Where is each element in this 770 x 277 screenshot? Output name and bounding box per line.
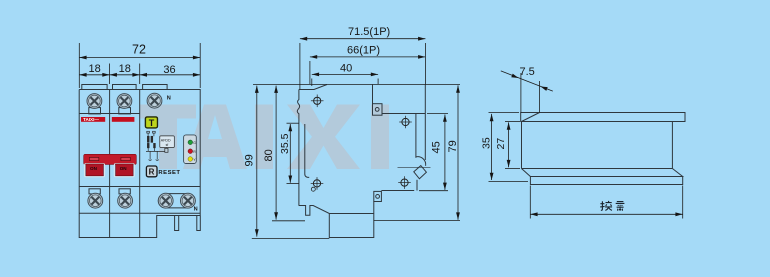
- 7.5 slanted: [501, 71, 553, 91]
- svg-text:36: 36: [163, 64, 175, 76]
- din slot floor: [415, 114, 417, 158]
- anxu glyphs (按需) drawn as strokes: [600, 201, 624, 211]
- red label strips: [81, 117, 134, 122]
- svg-text:AFDD: AFDD: [161, 139, 171, 143]
- svg-text:N: N: [167, 95, 171, 101]
- top-left local top and slope: [299, 85, 327, 90]
- horizontal internal lines: [79, 113, 140, 115]
- top mounting tabs: [82, 85, 107, 90]
- LED indicator panel: [184, 135, 197, 164]
- 7.5 arrows on slant: [511, 74, 518, 78]
- svg-text:ON: ON: [90, 166, 98, 171]
- horizontal top dims: [299, 43, 301, 89]
- svg-text:18: 18: [119, 63, 131, 75]
- svg-text:7.5: 7.5: [520, 66, 535, 78]
- handle window inner line: [305, 124, 309, 177]
- svg-text:T: T: [149, 118, 155, 128]
- svg-text:18: 18: [89, 63, 101, 75]
- svg-text:80: 80: [263, 149, 275, 161]
- clip arc: [416, 157, 426, 166]
- bottom band: [530, 177, 682, 185]
- 27: [505, 121, 520, 123]
- terminal screws top: [87, 94, 102, 109]
- chamfer band: [522, 168, 673, 170]
- svg-text:40: 40: [340, 63, 352, 75]
- top slab: [521, 113, 685, 122]
- mini AFDD diagram: [146, 131, 174, 160]
- anxu: [529, 186, 531, 219]
- svg-text:79: 79: [447, 140, 459, 152]
- bottom left profile: foot tab, slope, arc box: [299, 206, 374, 238]
- svg-text:ON: ON: [120, 166, 128, 171]
- latch stem to bottom line: [416, 180, 418, 191]
- svg-text:45: 45: [431, 141, 443, 153]
- toggle levers: [85, 164, 135, 177]
- vertical dims 99 and 80: [256, 86, 258, 237]
- svg-text:TAIXI—: TAIXI—: [83, 117, 99, 122]
- 35: [489, 112, 520, 114]
- terminal screws bottom: [88, 193, 103, 208]
- svg-text:RESET: RESET: [158, 170, 180, 176]
- neutral stadium outline: [158, 194, 195, 208]
- shared top extension line: [253, 84, 327, 86]
- svg-text:99: 99: [244, 154, 256, 166]
- rear top drop and clamp box: [372, 85, 374, 104]
- svg-text:71.5(1P): 71.5(1P): [348, 26, 390, 38]
- web: [521, 122, 523, 169]
- 需: [616, 202, 625, 211]
- body outline: [79, 90, 200, 238]
- channel floor: [382, 113, 425, 115]
- svg-text:G: G: [193, 141, 196, 145]
- R reset button: [146, 166, 157, 177]
- svg-text:35.5: 35.5: [279, 133, 291, 154]
- svg-text:72: 72: [132, 43, 146, 57]
- svg-text:35: 35: [481, 137, 493, 149]
- 79: [457, 85, 459, 219]
- svg-text:66(1P): 66(1P): [347, 45, 380, 57]
- screw bases top: [89, 108, 101, 114]
- svg-text:sf: sf: [166, 143, 169, 147]
- 按: [600, 201, 604, 210]
- chamfer line: [522, 113, 540, 122]
- svg-text:N: N: [194, 206, 198, 212]
- screw bases bottom: [89, 189, 100, 194]
- front face with wiggle: [297, 90, 299, 206]
- bottom rear lines: [381, 190, 414, 192]
- rear face upper: [424, 85, 426, 161]
- toggle rocker bar: [84, 154, 137, 164]
- 35.5: [287, 122, 299, 124]
- module separators: [109, 90, 111, 238]
- bottom legs: [175, 216, 179, 231]
- svg-text:R: R: [149, 168, 155, 177]
- T test button: [145, 117, 157, 128]
- watermark TAIXI: [140, 105, 389, 170]
- 45: [427, 113, 448, 115]
- clip latch (tilted square): [414, 166, 427, 179]
- svg-text:27: 27: [495, 138, 507, 150]
